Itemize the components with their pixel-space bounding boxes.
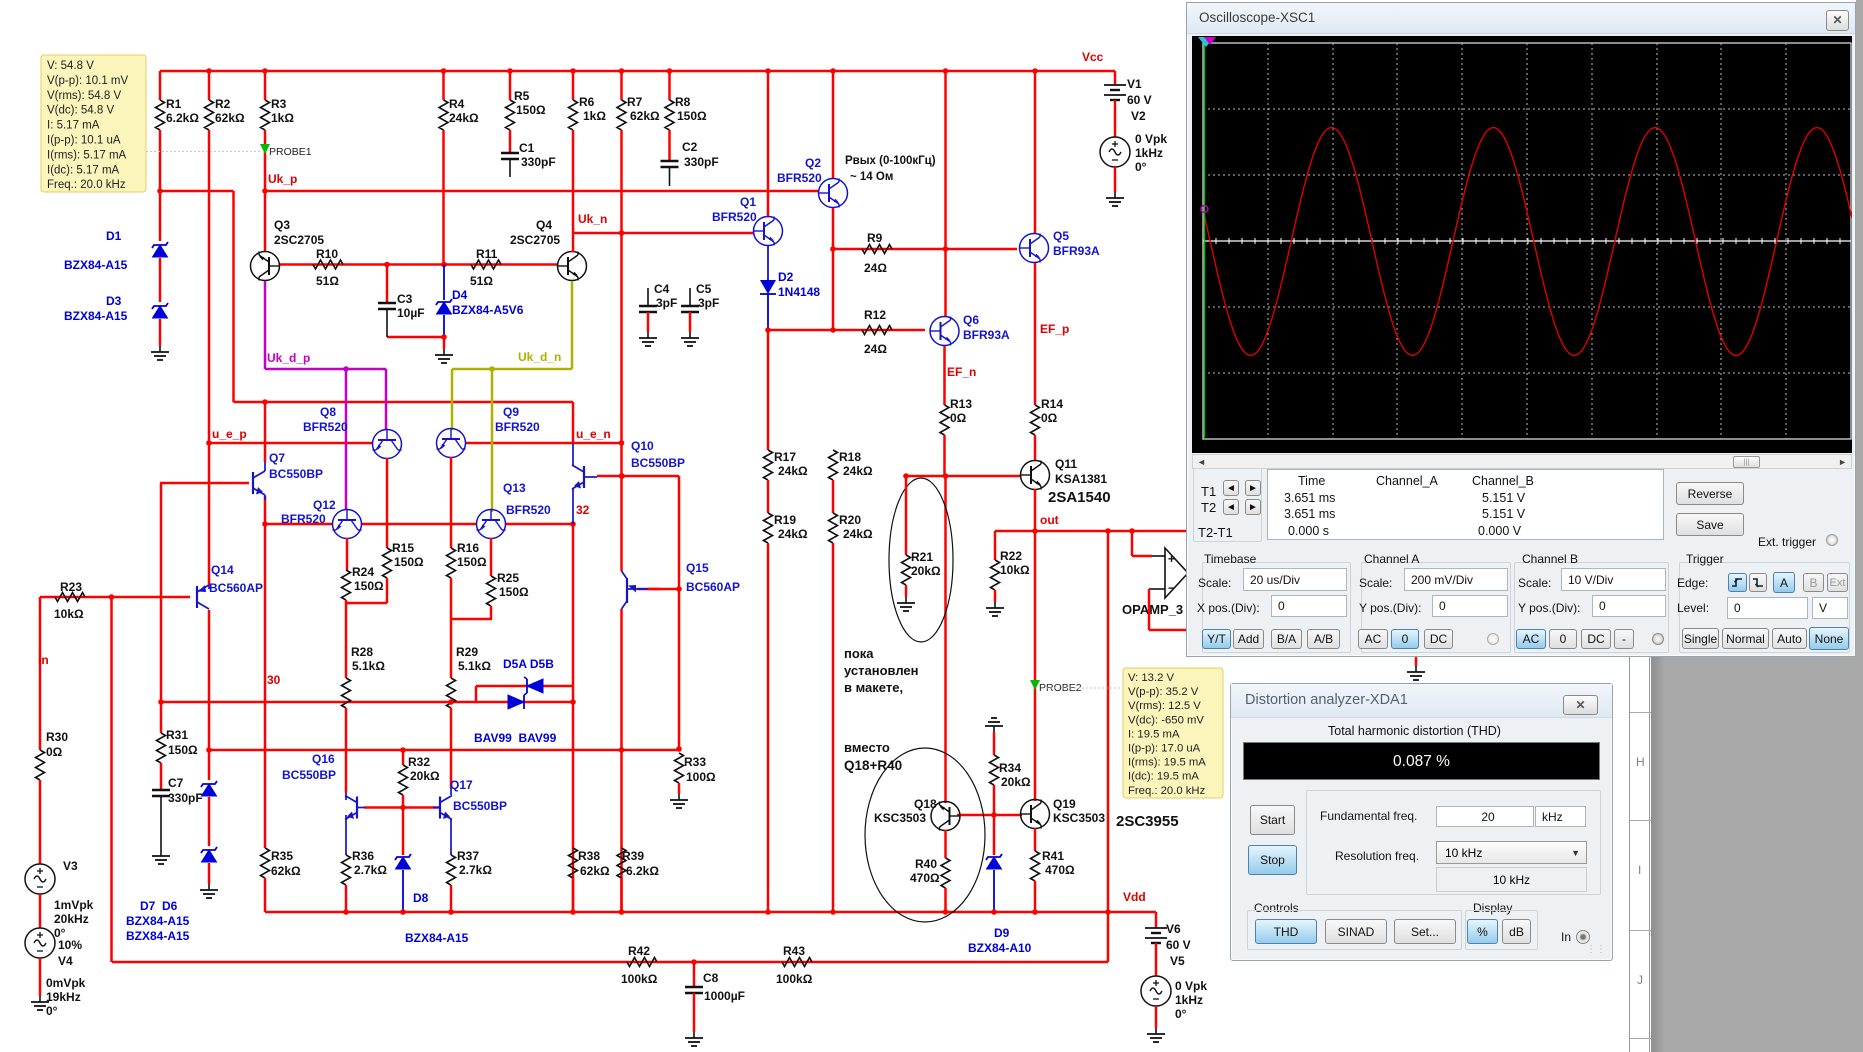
wire R14 to Q11	[1034, 435, 1037, 461]
wire Q17 emitter to R37	[450, 819, 452, 855]
svg-text:BFR520: BFR520	[303, 420, 348, 434]
resistor R42	[627, 958, 657, 967]
capacitor C7	[152, 789, 170, 792]
svg-text:V(dc): -650 mV: V(dc): -650 mV	[1128, 714, 1204, 726]
wire R41 to bus	[1034, 881, 1037, 912]
junction x1108	[1105, 528, 1111, 534]
wire x161 down	[160, 483, 163, 733]
svg-text:100Ω: 100Ω	[686, 770, 716, 784]
wire Q15 collector down	[620, 609, 623, 750]
transistor Q8 BFR520	[373, 430, 402, 459]
junction x573 D5	[570, 699, 576, 705]
svg-text:Q4: Q4	[536, 218, 552, 232]
probe PROBE2	[1030, 680, 1040, 690]
resistor R43	[782, 958, 812, 967]
wire Uk_n bus	[573, 232, 754, 235]
svg-text:150Ω: 150Ω	[168, 743, 198, 757]
wire D3 to ground	[159, 319, 162, 346]
junction bottom bus x994	[991, 909, 997, 915]
wire D8 to bus	[402, 870, 404, 912]
resistor R31	[157, 733, 166, 763]
svg-text:Q8: Q8	[320, 405, 336, 419]
svg-text:150Ω: 150Ω	[499, 585, 529, 599]
resistor R38	[569, 848, 578, 878]
capacitor C1	[501, 152, 519, 155]
svg-text:6.2kΩ: 6.2kΩ	[166, 111, 199, 125]
junction y750 x621	[619, 747, 625, 753]
wire R9 row	[833, 248, 1017, 251]
wire Uk_d_p horizontal	[265, 368, 386, 371]
battery V6	[1145, 927, 1167, 929]
wire D2 bottom lead	[767, 294, 769, 330]
svg-text:100kΩ: 100kΩ	[621, 972, 658, 986]
svg-text:330pF: 330pF	[684, 155, 719, 169]
wire to C3	[386, 265, 389, 304]
wire Q11 base row	[906, 475, 1020, 478]
wire gnd to R34	[993, 732, 996, 755]
wire R34 down to D9	[993, 785, 996, 855]
source V2	[1100, 137, 1130, 167]
wire Q9 to R16	[450, 457, 453, 548]
junction y702 x161	[158, 699, 164, 705]
junction opamp feed	[1129, 528, 1135, 534]
svg-text:0 Vpk: 0 Vpk	[1175, 979, 1207, 993]
svg-text:C1: C1	[519, 141, 535, 155]
wire Q15 emitter row	[637, 588, 679, 591]
svg-text:150Ω: 150Ω	[354, 579, 384, 593]
svg-text:0°: 0°	[1135, 160, 1147, 174]
svg-text:Q14: Q14	[211, 563, 234, 577]
source V3	[25, 864, 55, 894]
wire R8 to C2	[668, 130, 671, 161]
wire x621 down to bus	[620, 750, 623, 912]
zener diode D1	[152, 242, 168, 248]
svg-text:62kΩ: 62kΩ	[271, 864, 301, 878]
source V5	[1141, 976, 1171, 1006]
svg-text:Uk_p: Uk_p	[268, 172, 297, 186]
svg-text:R35: R35	[271, 849, 293, 863]
svg-text:R29: R29	[456, 645, 478, 659]
wire R4 top lead	[442, 71, 445, 100]
svg-text:C7: C7	[168, 776, 184, 790]
svg-text:EF_n: EF_n	[947, 365, 976, 379]
wire R32 top	[402, 750, 405, 765]
svg-text:1mVpk: 1mVpk	[54, 898, 94, 912]
svg-text:1kHz: 1kHz	[1175, 993, 1203, 1007]
svg-text:20kΩ: 20kΩ	[410, 769, 440, 783]
wire C1 stub	[509, 159, 511, 177]
svg-text:C3: C3	[397, 292, 413, 306]
wire R30 to V3	[39, 780, 42, 864]
resistor R23	[55, 593, 85, 602]
svg-text:Q16: Q16	[312, 752, 335, 766]
capacitor C2	[661, 160, 679, 163]
svg-text:2SC2705: 2SC2705	[274, 233, 324, 247]
svg-text:BC560AP: BC560AP	[686, 580, 740, 594]
resistor R41	[1031, 851, 1040, 881]
svg-text:V1: V1	[1127, 77, 1142, 91]
svg-text:R24: R24	[352, 565, 374, 579]
resistor R28	[342, 678, 351, 708]
wire opamp minus	[1149, 588, 1165, 590]
wire Q5 collector from bus	[1034, 71, 1037, 234]
wire C3-D4 bottom	[387, 336, 444, 339]
transistor Q17 BC550BP	[440, 796, 452, 820]
resistor R33	[675, 753, 684, 783]
ground R33	[678, 794, 680, 800]
svg-text:24kΩ: 24kΩ	[843, 527, 873, 541]
svg-text:вместо: вместо	[844, 740, 890, 755]
wire u_e_n	[466, 442, 622, 445]
svg-text:D1: D1	[106, 229, 122, 243]
wire feedback right	[1149, 629, 1188, 632]
wire x=111 down to bottom bus	[110, 597, 113, 962]
svg-text:I: 19.5 mA: I: 19.5 mA	[1128, 728, 1180, 740]
svg-text:in: in	[38, 653, 49, 667]
wire R2 top lead	[208, 71, 211, 100]
resistor R10	[313, 260, 343, 269]
wire Q12 left lead	[265, 523, 332, 526]
svg-text:1kΩ: 1kΩ	[583, 109, 606, 123]
svg-text:1kΩ: 1kΩ	[271, 111, 294, 125]
svg-text:2.7kΩ: 2.7kΩ	[354, 863, 387, 877]
wire u_e_p	[209, 442, 372, 445]
svg-text:Q11: Q11	[1055, 457, 1077, 471]
svg-text:R2: R2	[215, 97, 231, 111]
wire purple to Q8	[385, 369, 388, 430]
resistor R34	[990, 755, 999, 785]
svg-text:1kHz: 1kHz	[1135, 146, 1163, 160]
wire R3 top lead	[264, 71, 267, 100]
svg-text:R42: R42	[628, 944, 650, 958]
svg-text:BC560AP: BC560AP	[209, 581, 263, 595]
leader line probe box1 to PROBE1	[146, 151, 262, 153]
svg-text:Freq.: 20.0 kHz: Freq.: 20.0 kHz	[1128, 785, 1206, 797]
wire feedback down	[1148, 589, 1151, 630]
wire V5 to ground	[1155, 1006, 1158, 1028]
junction x160 y191	[157, 188, 163, 194]
scrollbar	[1192, 454, 1852, 469]
svg-text:BFR93A: BFR93A	[1053, 244, 1100, 258]
Channel A group	[1361, 562, 1511, 653]
wire C2 stub	[669, 167, 671, 186]
wire Uk_d_n horizontal	[452, 368, 572, 371]
wire R21 to ground	[905, 585, 908, 597]
junction x573 Q13	[570, 521, 576, 527]
svg-text:R20: R20	[839, 513, 861, 527]
resistor R9	[862, 245, 892, 254]
ground D4	[443, 349, 445, 355]
wire yellow to Q9	[451, 369, 454, 430]
wire D5A branch	[476, 685, 573, 688]
svg-text:150Ω: 150Ω	[457, 555, 487, 569]
wire Q10 emitter down	[572, 489, 574, 524]
svg-text:R6: R6	[579, 95, 595, 109]
wire D9 to bus	[993, 870, 995, 912]
svg-text:R9: R9	[867, 231, 883, 245]
resistor R25	[487, 576, 496, 606]
resistor R14	[1031, 405, 1040, 435]
svg-text:BZX84-A5V6: BZX84-A5V6	[452, 303, 524, 317]
svg-text:установлен: установлен	[844, 663, 919, 678]
transistor Q14 BC560AP	[197, 585, 209, 609]
svg-text:R37: R37	[457, 849, 479, 863]
transistor Q3 2SC2705	[251, 252, 280, 281]
svg-text:D2: D2	[778, 270, 794, 284]
junction C8	[691, 959, 697, 965]
wire Q1 collector from bus	[767, 71, 770, 217]
junction bottom bus x945.5	[943, 909, 949, 915]
svg-text:I(p-p): 10.1 uA: I(p-p): 10.1 uA	[47, 135, 121, 147]
ellipse around Q18+R40	[865, 748, 985, 922]
wire Q19 emitter to R41	[1034, 828, 1037, 851]
svg-text:V(rms): 12.5 V: V(rms): 12.5 V	[1128, 700, 1201, 712]
wire R25 bottom	[490, 606, 493, 619]
svg-text:Q18: Q18	[914, 797, 937, 811]
wire Q16-Q17 base row	[364, 806, 440, 809]
junction bottom bus x346	[343, 909, 349, 915]
wire in net down	[39, 597, 42, 750]
ground D3	[159, 346, 161, 352]
wire R36 to bus	[345, 885, 348, 912]
wire Q18-Q19 base row	[957, 814, 1022, 817]
svg-text:10kΩ: 10kΩ	[1000, 563, 1030, 577]
svg-text:60 V: 60 V	[1127, 93, 1152, 107]
resistor R5	[506, 100, 515, 130]
wire D6 to ground	[208, 863, 211, 884]
wire Q1 emitter to D2	[767, 246, 769, 280]
source V4	[25, 928, 55, 958]
svg-text:KSC3503: KSC3503	[874, 811, 926, 825]
svg-text:470Ω: 470Ω	[910, 871, 940, 885]
svg-text:R8: R8	[675, 95, 691, 109]
zener diode D6	[201, 847, 217, 853]
svg-text:Q3: Q3	[274, 218, 290, 232]
svg-text:Q5: Q5	[1053, 229, 1069, 243]
svg-text:24kΩ: 24kΩ	[778, 527, 808, 541]
wire R15 bottom	[386, 578, 389, 603]
transistor Q4 2SC2705	[558, 252, 587, 281]
svg-text:20kΩ: 20kΩ	[911, 564, 941, 578]
svg-text:Vcc: Vcc	[1082, 50, 1104, 64]
sheet border column and grey workspace	[1629, 657, 1650, 1052]
wire Q4 collector	[572, 233, 575, 252]
wire out bus	[995, 530, 1186, 533]
junction out/Q11	[1032, 528, 1038, 534]
svg-text:10kΩ: 10kΩ	[54, 607, 84, 621]
wire horizontal y=402	[234, 401, 574, 404]
wire Uk_d_p purple vertical	[264, 281, 267, 369]
svg-text:u_e_n: u_e_n	[576, 427, 611, 441]
transistor Q12 BFR520	[333, 510, 362, 539]
wire bus y=750	[209, 749, 679, 752]
wire R5 to C1	[509, 130, 512, 153]
junction R9 left	[830, 246, 836, 252]
wire C5 to gnd	[689, 312, 692, 332]
wire x1035 down to Q19	[1034, 531, 1037, 801]
wire R21 top	[905, 476, 908, 555]
ground D6	[208, 884, 210, 890]
wire R16 bottom	[450, 578, 453, 678]
capacitor C3	[378, 302, 396, 305]
transistor Q10 BC550BP	[572, 465, 584, 489]
wire R29-R25 join	[452, 618, 492, 621]
wire R12 row	[768, 329, 925, 332]
svg-text:Q17: Q17	[450, 778, 473, 792]
svg-text:R33: R33	[684, 755, 706, 769]
svg-text:V2: V2	[1131, 109, 1146, 123]
svg-text:0mVpk: 0mVpk	[46, 976, 86, 990]
resistor R13	[940, 405, 949, 435]
svg-text:I(rms): 19.5 mA: I(rms): 19.5 mA	[1128, 757, 1206, 769]
wire R1 top lead	[159, 71, 162, 100]
svg-text:Q12: Q12	[313, 498, 336, 512]
capacitor C8	[685, 986, 703, 989]
wire Q13 right lead	[505, 523, 573, 526]
svg-text:0Ω: 0Ω	[950, 411, 967, 425]
junction y750	[206, 747, 212, 753]
transistor Q1 BFR520	[754, 217, 783, 246]
resistor R17	[764, 450, 773, 480]
svg-text:2SC2705: 2SC2705	[510, 233, 560, 247]
svg-text:Uk_n: Uk_n	[578, 212, 607, 226]
wire R2 down to Q14 emitter	[208, 130, 211, 585]
resistor R12	[862, 326, 892, 335]
cursor handles	[1198, 37, 1214, 47]
wire C4 to gnd	[647, 312, 650, 332]
wire Q16 emitter to R36	[345, 815, 347, 855]
ellipse around R21	[889, 478, 953, 642]
svg-text:V5: V5	[1170, 954, 1185, 968]
wire D4 top lead	[443, 265, 445, 301]
svg-text:PROBE1: PROBE1	[269, 146, 312, 158]
wire R39 to bus	[620, 878, 623, 912]
svg-text:Q6: Q6	[963, 313, 979, 327]
junction u_e_p	[206, 440, 212, 446]
wire Q6 emitter down EF_n	[943, 346, 946, 405]
svg-text:V(dc): 54.8 V: V(dc): 54.8 V	[47, 105, 114, 117]
svg-text:R39: R39	[622, 849, 644, 863]
svg-text:D3: D3	[106, 294, 122, 308]
junction bottom bus x451	[448, 909, 454, 915]
wire Q2 emitter down	[832, 208, 835, 330]
wire Q17 base stub	[433, 807, 440, 809]
wire C3 bottom	[386, 309, 388, 337]
wire R24-R15 join	[346, 602, 387, 605]
junction y476 x621	[619, 473, 625, 479]
wire Q7 base row	[160, 482, 249, 485]
junction Q12 lead	[262, 521, 268, 527]
transistor Q7 BC550BP	[253, 471, 265, 495]
junction R12 left	[765, 327, 771, 333]
wire Vcc to V1	[1114, 71, 1117, 85]
svg-text:Q2: Q2	[805, 156, 821, 170]
svg-text:1000µF: 1000µF	[704, 989, 745, 1003]
svg-text:R12: R12	[864, 308, 886, 322]
svg-text:V(p-p): 35.2 V: V(p-p): 35.2 V	[1128, 686, 1199, 698]
svg-text:1N4148: 1N4148	[778, 285, 820, 299]
wire R1 to D1	[159, 130, 162, 241]
svg-text:V(p-p): 10.1 mV: V(p-p): 10.1 mV	[47, 75, 128, 87]
transistor Q18 KSC3503	[931, 802, 960, 831]
svg-text:Q7: Q7	[269, 451, 285, 465]
wire Q16 base stub	[357, 807, 365, 809]
wire R22 top	[994, 531, 997, 560]
wire to ground	[443, 337, 446, 349]
wire to opamp plus	[1131, 531, 1134, 556]
junction x621 y476	[619, 473, 625, 479]
oscilloscope window XSC1	[1186, 2, 1856, 657]
wire x945 down to Q18	[944, 476, 947, 803]
svg-text:D8: D8	[413, 891, 429, 905]
wire D5 left stub	[475, 686, 478, 702]
transistor Q16 BC550BP	[345, 796, 357, 820]
svg-text:I(rms): 5.17 mA: I(rms): 5.17 mA	[47, 149, 127, 161]
transistor Q5 BFR93A	[1020, 234, 1049, 263]
svg-text:Freq.: 20.0 kHz: Freq.: 20.0 kHz	[47, 179, 126, 191]
wire R4 down to D4 node	[442, 130, 445, 265]
resistor R7	[617, 100, 626, 130]
wire R33 to ground	[678, 783, 681, 794]
svg-text:BFR520: BFR520	[506, 503, 551, 517]
svg-text:51Ω: 51Ω	[470, 274, 493, 288]
wire R31 to C7	[160, 763, 163, 790]
junction D4 bottom	[441, 334, 447, 340]
resistor R8	[665, 100, 674, 130]
resistor R1	[156, 100, 165, 130]
wire purple to Q12	[345, 369, 348, 510]
svg-text:6.2kΩ: 6.2kΩ	[626, 864, 659, 878]
diode D5B BAV99	[508, 695, 524, 709]
svg-text:BZX84-A15: BZX84-A15	[126, 914, 190, 928]
svg-text:C4: C4	[654, 282, 670, 296]
wire Q2 collector from bus	[832, 71, 835, 179]
svg-text:10%: 10%	[58, 938, 82, 952]
svg-text:KSA1381: KSA1381	[1055, 472, 1107, 486]
svg-text:C8: C8	[703, 971, 719, 985]
ground V4	[39, 996, 41, 1002]
wire C7 to ground	[160, 796, 162, 850]
svg-text:C5: C5	[696, 282, 712, 296]
svg-text:out: out	[1040, 513, 1059, 527]
wire Q3-R10-R11-Q4 row	[280, 263, 557, 266]
transistor Q11 KSA1381	[1021, 461, 1050, 490]
wire V3-V4	[39, 894, 42, 928]
svg-text:BC550BP: BC550BP	[282, 768, 336, 782]
svg-text:BZX84-A10: BZX84-A10	[968, 941, 1032, 955]
svg-text:R34: R34	[999, 761, 1021, 775]
wire R38 to bus	[572, 878, 575, 912]
svg-text:100kΩ: 100kΩ	[776, 972, 813, 986]
svg-text:~ 14 Ом: ~ 14 Ом	[850, 171, 893, 183]
resistor R15	[383, 548, 392, 578]
svg-text:пока: пока	[844, 646, 874, 661]
resistor R35	[261, 848, 270, 878]
svg-text:24Ω: 24Ω	[864, 342, 887, 356]
wire Uk_p bus	[265, 190, 818, 193]
svg-text:Vdd: Vdd	[1123, 890, 1146, 904]
wire down to R17	[767, 330, 770, 450]
svg-text:60 V: 60 V	[1166, 938, 1191, 952]
wire Vdd bottom bus	[265, 911, 1156, 914]
svg-text:19kHz: 19kHz	[46, 990, 81, 1004]
wire R22 to ground	[994, 590, 997, 602]
svg-text:BFR93A: BFR93A	[963, 328, 1010, 342]
wire Q7 collector up	[264, 402, 267, 462]
ground R22	[994, 602, 996, 608]
wire Vcc top bus	[160, 70, 1115, 73]
left green cursor line	[1204, 43, 1206, 439]
